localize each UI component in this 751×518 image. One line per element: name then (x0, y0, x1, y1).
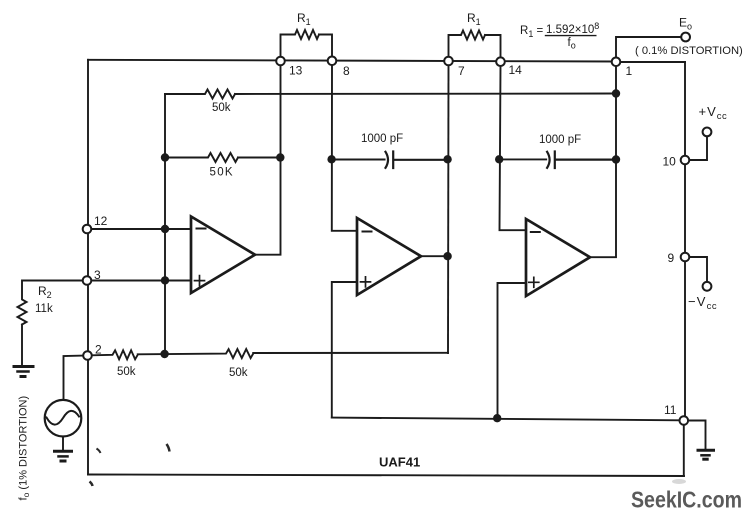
pin 9 terminal (681, 253, 690, 262)
wire bottom common rail y=418 (332, 418, 680, 421)
svg-text:13: 13 (289, 64, 303, 78)
resistor R1 (right, pins 7-14) (449, 31, 501, 58)
pin 1 terminal (612, 58, 621, 67)
pin 14 terminal (496, 57, 505, 66)
terminal Eo (681, 33, 690, 42)
svg-text:12: 12 (94, 214, 108, 228)
wire top bus from left rail to pin 1 (88, 60, 616, 62)
svg-text:3: 3 (94, 268, 101, 282)
svg-text:8: 8 (343, 64, 350, 78)
op-amp U1C (526, 219, 590, 296)
wire minus-rail vertical x=165 (164, 94, 166, 354)
svg-text:10: 10 (663, 155, 677, 169)
wire U1B output to vertical x=448 (421, 255, 448, 257)
resistor 50k (input, left) and 50k (feedback) row (92, 349, 448, 359)
svg-text:11k: 11k (35, 303, 53, 315)
svg-text:9: 9 (668, 251, 675, 265)
scan speck marks (672, 479, 686, 484)
wire pin14 down to U1C minus (500, 66, 527, 230)
wire left rail vertical (87, 60, 89, 475)
svg-text:1: 1 (626, 64, 633, 78)
ground at pin 11 (698, 449, 714, 452)
svg-text:fo (1% DISTORTION): fo (1% DISTORTION) (18, 396, 32, 501)
junction dot minus rail (161, 225, 169, 233)
wire 50k feedback row y=94 (165, 90, 616, 99)
op-amp U1A (191, 217, 255, 294)
ground for sine source (55, 450, 72, 453)
wire pin8 down to U1B minus (332, 65, 357, 231)
terminal +Vcc (703, 127, 712, 136)
pin 8 terminal (328, 57, 337, 66)
svg-text:1.592×108: 1.592×108 (546, 21, 599, 36)
wire right rail vertical (684, 62, 685, 476)
pin 13 terminal (276, 57, 285, 66)
op-amp U1B (357, 218, 421, 295)
wire pin7 vertical down to 50k row (447, 65, 450, 353)
svg-text:SeekIC.com: SeekIC.com (631, 487, 742, 513)
junction dot 50K left (161, 153, 169, 161)
pin 12 terminal (83, 225, 92, 234)
svg-text:50k: 50k (117, 366, 136, 378)
svg-text:2: 2 (95, 343, 102, 357)
wire U1A output up to pin 13 (255, 65, 281, 254)
sine source V1 (64, 356, 84, 400)
wire U1B plus from bottom rail (332, 282, 357, 418)
svg-text:( 0.1% DISTORTION): ( 0.1% DISTORTION) (635, 45, 743, 57)
pin 10 terminal (681, 156, 690, 165)
capacitor C2 1000 pF (499, 158, 546, 160)
capacitor C1 1000 pF (332, 159, 385, 161)
junction dot C1 left (327, 155, 335, 163)
resistor R1 (left, pins 13-8) (281, 30, 333, 57)
ground for R2 (14, 365, 33, 368)
resistor R2 11k (18, 281, 84, 366)
junction dot U1B output (443, 252, 451, 260)
wire pin12 to U1A minus (91, 228, 191, 230)
junction dot C2 left (495, 155, 503, 163)
svg-text:14: 14 (509, 63, 523, 77)
wire pin 11 to ground (688, 421, 706, 449)
svg-text:50K: 50K (210, 167, 234, 179)
junction dot top 50k to pin1 column (612, 89, 620, 97)
svg-text:1000 pF: 1000 pF (539, 134, 581, 146)
junction dot C2 right (612, 155, 620, 163)
wire bottom bus (88, 475, 684, 477)
svg-text:1000 pF: 1000 pF (361, 133, 403, 145)
pin 3 terminal (83, 276, 92, 285)
pin 2 terminal (83, 351, 92, 360)
wire U1C plus from bottom rail (498, 283, 527, 418)
junction dot 50K right (276, 153, 284, 161)
wire pin3 to U1A plus (91, 280, 191, 282)
resistor 50K row y=157.5 (165, 153, 280, 162)
pin 11 terminal (680, 416, 689, 425)
svg-text:7: 7 (458, 64, 465, 78)
svg-text:UAF41: UAF41 (379, 455, 420, 470)
junction dot C1 right (443, 155, 451, 163)
svg-text:50k: 50k (212, 102, 231, 114)
wire Eo stub from node 1 (616, 37, 681, 62)
junction dot bottom rail (493, 414, 501, 422)
wire pin 10 to +Vcc (689, 136, 707, 160)
wire pin 9 to -Vcc (689, 257, 707, 282)
svg-text:50k: 50k (229, 367, 248, 379)
junction dot plus rail (161, 276, 169, 284)
pin 7 terminal (444, 57, 453, 66)
terminal -Vcc (703, 282, 712, 291)
wire node 1 to right rail (616, 61, 685, 63)
wire U1C output up to pin 1 column (590, 66, 616, 257)
svg-text:11: 11 (664, 403, 677, 417)
junction dot 50k row (160, 350, 168, 358)
